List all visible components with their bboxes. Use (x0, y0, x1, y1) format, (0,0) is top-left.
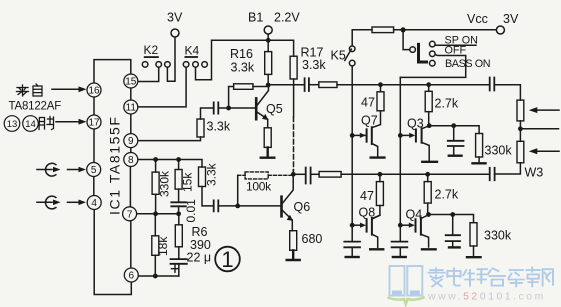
wire top mid line to 330k (429, 126, 479, 134)
node rail-2.7kbot (425, 172, 430, 177)
wire 330kbot stem (473, 246, 475, 257)
svg-text:R16: R16 (230, 47, 253, 61)
svg-text:16: 16 (88, 86, 100, 97)
wire 330kA top lead (155, 160, 157, 173)
pin 4 (87, 196, 101, 210)
wire pin9 to 3.3kA bottom (138, 137, 201, 141)
resistor Vcc rail horizontal (372, 27, 394, 33)
svg-text:15k: 15k (181, 172, 195, 192)
node Q4 gate (398, 223, 403, 228)
svg-text:Q6: Q6 (294, 200, 311, 214)
wire 47bot top lead (379, 174, 381, 181)
svg-text:2.2V: 2.2V (274, 11, 300, 25)
capacitor 22u electrolytic (171, 259, 187, 264)
pin 11 (124, 100, 138, 114)
pin 16 (87, 83, 101, 97)
node Vcc junction (401, 27, 406, 32)
svg-text:K5: K5 (331, 49, 346, 63)
resistor R17 3.3k (290, 56, 297, 79)
svg-text:Vcc: Vcc (467, 12, 488, 26)
wire W3 mid junction right (523, 128, 559, 130)
wire pin7 line (137, 213, 179, 215)
svg-text:5: 5 (91, 165, 97, 176)
svg-text:18k: 18k (156, 236, 170, 256)
svg-text:330k: 330k (158, 170, 172, 197)
wire pin16 loop to pin15 (94, 60, 131, 83)
resistor top rail horizontal (319, 82, 337, 88)
svg-text:3V: 3V (503, 12, 519, 26)
ground Q6 680 (287, 250, 300, 260)
svg-text:47: 47 (361, 96, 375, 110)
svg-text:TA8122AF: TA8122AF (9, 101, 62, 113)
capacitor 400 line bottom (392, 242, 408, 248)
wire 2.7kbot bottom lead (427, 203, 429, 214)
capacitor C2 Q6 coupling (214, 200, 219, 211)
wire K4 contact down to pin11 (138, 67, 186, 107)
wire left bus 17-5 (93, 129, 95, 163)
node rail-2.7ktop (426, 82, 431, 87)
capacitor bottom rail left (306, 168, 311, 184)
wire bottom rail resistor to right cap (341, 173, 489, 175)
watermark book icon (390, 266, 405, 296)
node R16 bottom / Q5 collector (266, 83, 271, 88)
switch mode L bracket (419, 44, 427, 62)
wire bottom mid line to 330k bot (429, 215, 474, 223)
wire B1 terminal lead into R16 (267, 34, 269, 52)
svg-text:1: 1 (221, 247, 233, 272)
wire SP ON contact (435, 44, 476, 46)
wire right bus 15-11 (130, 88, 132, 100)
wire junction to Q6 collector top (292, 170, 294, 174)
node Q4 drain (426, 212, 431, 217)
switch K4 bar (185, 56, 199, 58)
arrow W3 upper (537, 109, 560, 111)
svg-text:3.3k: 3.3k (231, 61, 255, 75)
transistor Q4 FET (416, 215, 429, 247)
left annotation 来自 (drawn strokes) (17, 84, 43, 96)
ground cap4 (449, 154, 462, 156)
ground Q5 emitter resistor (261, 147, 275, 157)
resistor 330k pin8 (152, 172, 159, 194)
wire Q3 gate (400, 134, 410, 136)
wire 3V terminal lead to K2 contact (167, 37, 175, 81)
resistor 3.3k pin9 (197, 119, 204, 137)
ground 330k bottom (467, 256, 481, 258)
svg-text:6: 6 (129, 271, 135, 282)
svg-text:Q8: Q8 (359, 206, 376, 220)
terminal 3V (171, 29, 179, 37)
wire right bus 7-6 (130, 221, 132, 268)
switch K5 top contact (349, 46, 355, 52)
svg-text:OFF: OFF (445, 45, 467, 57)
wire 47bot bottom to Q8 drain (373, 206, 380, 219)
svg-text:BASS ON: BASS ON (445, 58, 490, 70)
resistor 330k bottom (470, 223, 477, 246)
resistor 2.7k bottom (424, 182, 431, 204)
wire left bus 5-4 (93, 177, 95, 196)
wire 15k bottom to cap 0.01 (178, 189, 180, 202)
wire top rail resistor to W3 corner (337, 84, 489, 86)
pin 8 (124, 153, 138, 167)
ground cap5 (449, 246, 460, 248)
annotation 脚 glyph (39, 117, 54, 130)
wire input lower (37, 201, 52, 203)
svg-text:www.520101.com: www.520101.com (427, 291, 546, 303)
switch K2 contact c (165, 62, 171, 68)
svg-text:2.7k: 2.7k (435, 97, 459, 111)
switch mode contact OFF (430, 51, 436, 57)
wire arrow pin17 (56, 121, 80, 123)
svg-text:13: 13 (7, 119, 18, 130)
wire cap4 from junction (453, 126, 455, 141)
svg-text:330k: 330k (484, 229, 512, 243)
resistor W3 lower half (517, 141, 524, 163)
input hook upper (46, 163, 56, 176)
arrow Q4 gate (409, 223, 415, 228)
resistor feedback Q5 (234, 84, 253, 90)
wire pin8 line (138, 160, 202, 168)
pin 15 (124, 74, 138, 88)
ground K5 line cap (346, 256, 359, 258)
wire arrow pin16 (52, 88, 80, 90)
wire input upper (37, 169, 52, 171)
wire 15k top lead (178, 160, 180, 170)
resistor Q5 emitter (264, 128, 271, 148)
ground Q7 source (371, 156, 385, 158)
resistor 3.3k pin8 (199, 167, 206, 187)
svg-text:680: 680 (302, 232, 323, 246)
node Q3 drain (427, 123, 432, 128)
node rail-47top (378, 82, 383, 87)
switch K2 contact a (142, 62, 148, 68)
rotated value labels (156, 162, 219, 256)
svg-text:Q7: Q7 (361, 114, 378, 128)
resistor 680 (290, 231, 297, 251)
wire pin6 line (138, 275, 178, 277)
svg-text:14: 14 (25, 119, 36, 130)
wire top rail right cap to W3 (495, 85, 520, 100)
svg-text:3.3k: 3.3k (207, 120, 231, 134)
resistor R6 390 (175, 225, 182, 247)
node Q7 gate (350, 133, 355, 138)
wire right bus 9-8 (130, 148, 132, 153)
svg-text:3V: 3V (167, 11, 183, 25)
watermark (390, 266, 423, 296)
svg-text:R6: R6 (192, 225, 208, 239)
wire K4 contact to B1 rail and R17 top (196, 40, 294, 79)
node Q3 gate (398, 133, 403, 138)
wire K2 contact to pin15 (138, 67, 159, 82)
wire bottom rail left (293, 173, 305, 175)
switch mode contact BASS (430, 60, 436, 66)
wire top rail segment cap left (268, 84, 303, 86)
svg-text:47: 47 (360, 189, 374, 203)
svg-text:Q5: Q5 (266, 102, 283, 116)
W3 wiper arrows (529, 107, 559, 154)
node pin7-cap (176, 211, 181, 216)
svg-text:17: 17 (88, 118, 100, 129)
arrow Q3 gate (409, 133, 415, 138)
wire Vcc junction down to switch pole (403, 30, 410, 50)
switch mode contact SP (430, 41, 436, 47)
resistor R16 3.3k (265, 52, 272, 75)
wire 100k right lead dashed (268, 174, 293, 176)
wire cap5 stem (452, 242, 454, 248)
svg-text:22 μ: 22 μ (187, 251, 212, 265)
switch K2 contact b (156, 62, 162, 68)
arrow Q7 gate (360, 133, 366, 138)
node B1 junction (266, 38, 271, 43)
node cap4 top (451, 123, 456, 128)
node Q5 base (226, 106, 231, 111)
wire C2 to Q6 base (219, 205, 281, 207)
wire 2.7ktop bottom lead (428, 112, 430, 126)
node rail-47bot (378, 172, 383, 177)
wire cap5 from junction (452, 215, 454, 235)
input terminal hooks and arrows (37, 163, 79, 209)
pin 7 (123, 207, 137, 221)
pin 9 (124, 134, 138, 148)
wire top rail cap to resistor (309, 84, 318, 86)
svg-text:9: 9 (128, 136, 134, 147)
terminal Vcc (496, 26, 504, 34)
capacitor K5 line bottom (344, 242, 360, 248)
ground Q8 source (370, 248, 383, 250)
wire R6 top lead (178, 214, 180, 225)
arrow to pin16 (79, 86, 87, 92)
switch mode pole (410, 47, 416, 53)
wire 330kA bottom lead (155, 194, 157, 214)
svg-text:15: 15 (125, 77, 137, 88)
wire 100k left lead dashed (238, 174, 245, 176)
wire bottom rail cap3 to resistor (312, 173, 320, 175)
wire 400 line cap stem (399, 248, 401, 257)
resistor 2.7k top (425, 91, 432, 111)
wire 2.7ktop top lead (428, 85, 430, 92)
wire feedback resistor right lead (253, 86, 268, 88)
wire 18k top lead (154, 214, 156, 236)
terminal B1 (264, 26, 272, 34)
wire 22u cap to pin6 line (178, 264, 180, 276)
svg-text:100k: 100k (246, 180, 272, 194)
wire 47top top lead (380, 85, 382, 92)
marker circled 1 (215, 247, 240, 272)
wire cap 0.01 to pin7 line (178, 206, 180, 213)
wire K5 vertical line (351, 66, 353, 241)
resistor 330k top (476, 134, 483, 158)
switch K4 contact b (193, 62, 199, 68)
node pin8-15k (176, 157, 181, 162)
wire Q8 gate (352, 224, 362, 226)
capacitor cap5 to ground bottom channel (446, 235, 460, 241)
svg-text:Q4: Q4 (406, 208, 423, 222)
switch K2 bar (144, 56, 159, 58)
wire Vcc rail with K5 drop (352, 30, 372, 46)
svg-text:K2: K2 (144, 43, 159, 57)
watermark Chinese text 家电维修资料网 (approximated strokes) (429, 267, 553, 286)
node cap5 top (450, 212, 455, 217)
wire right bus 11-9 (130, 114, 132, 134)
wire cap4 stem to ground (453, 146, 455, 155)
arrow Q8 gate (360, 223, 366, 228)
switch K5 bottom contact (349, 60, 355, 66)
svg-text:K4: K4 (185, 44, 200, 58)
svg-text:0.01: 0.01 (184, 199, 198, 223)
resistor bottom rail horizontal (319, 172, 341, 178)
wire W3 resistor1 to mid junction (519, 121, 521, 141)
svg-text:8: 8 (128, 155, 134, 166)
transistor Q7 FET (362, 111, 381, 158)
switch K4 contact c (202, 62, 208, 68)
wire left bus 16-17 (93, 97, 95, 115)
wire bottom rail cap to W3 (495, 163, 520, 174)
svg-text:3.3k: 3.3k (205, 162, 219, 186)
capacitor top rail right (490, 78, 495, 91)
ground Q4 source (422, 248, 436, 250)
wire R17 bottom down solid part (293, 79, 295, 117)
ground 330k top (473, 162, 486, 164)
resistor 100k dashed (245, 172, 268, 179)
switch K4 contact a (183, 62, 189, 68)
node Q6 base branch (235, 204, 240, 209)
svg-text:330k: 330k (485, 144, 513, 158)
resistor 47 bottom (376, 182, 383, 206)
capacitor top rail left (305, 78, 309, 91)
capacitor 0.01 (171, 202, 186, 206)
transistor Q5 (256, 85, 268, 128)
wire 18k bottom lead (154, 255, 156, 276)
svg-text:B1: B1 (248, 11, 263, 25)
input hook lower (46, 196, 56, 209)
svg-text:2.7k: 2.7k (435, 188, 459, 202)
left annotation pin13 circled (4, 116, 38, 132)
terminals and switches (142, 26, 504, 67)
transistor Q8 FET (367, 215, 380, 247)
svg-text:7: 7 (127, 209, 133, 220)
wire C1 to Q5 base (219, 107, 255, 109)
svg-text:11: 11 (126, 103, 137, 114)
gate arrows (360, 133, 415, 228)
arrow W3 lower (537, 150, 560, 152)
resistor 18k (152, 236, 159, 256)
node pin7-330k (153, 211, 158, 216)
node pin6-18k (153, 274, 158, 279)
ground 400 line cap (393, 256, 406, 258)
switch K5 arm (345, 49, 352, 60)
node Q8 gate (350, 223, 355, 228)
wire 330ktop stem (478, 157, 480, 163)
capacitor C1 Q5 coupling (214, 102, 219, 113)
wire R17 down dashed part (293, 117, 295, 170)
node W3 wiper (518, 126, 523, 131)
svg-text:W3: W3 (525, 166, 544, 180)
svg-text:IC1 TA8155F: IC1 TA8155F (107, 115, 123, 215)
IC pin circles (87, 74, 139, 282)
transistor Q3 FET (416, 126, 429, 162)
transistor Q6 (282, 174, 294, 230)
wire 3.3kA top to coupling cap C1 (201, 108, 213, 119)
capacitor bottom rail right (490, 168, 495, 180)
arrow to pin17 (79, 119, 87, 125)
22u electrolytic plus sign (172, 265, 179, 272)
wire OFF contact right-down-left to 400 line (400, 54, 465, 77)
resistor W3 upper half (517, 100, 524, 121)
capacitors (171, 78, 495, 264)
node R17 bottom / Q6 collector (291, 172, 296, 177)
wire Q7 gate (352, 134, 362, 136)
wire feedback resistor left lead to Q5 base (229, 87, 234, 108)
node pin8-330k (153, 157, 158, 162)
wire Q4 gate (400, 224, 409, 226)
resistor 47 top (377, 92, 384, 111)
wire right bus 8-7 (129, 167, 131, 207)
wire R6 bottom to 22u cap (178, 247, 180, 259)
ground symbols (261, 147, 486, 260)
wire Vcc resistor to terminal (394, 29, 497, 31)
svg-text:Q3: Q3 (407, 117, 424, 131)
wire branch up to 100k left (237, 175, 239, 206)
resistor 15k (175, 170, 182, 190)
pin 6 (124, 268, 138, 282)
svg-text:4: 4 (91, 198, 97, 209)
capacitor cap4 to ground top channel (448, 141, 464, 146)
ground Q3 source (422, 161, 437, 163)
pin 17 (87, 115, 101, 129)
wire 3.3kB bottom to coupling cap C2 (202, 187, 213, 206)
wire 2.7kbot top lead (427, 174, 429, 181)
pin 5 (87, 163, 101, 177)
wire 400 vertical line (mode line) (399, 77, 401, 241)
wire K5 line cap stem (351, 248, 353, 257)
wire R16 bottom to rail junction (267, 74, 269, 85)
wire left bus pin4 down to bottom loop (94, 210, 131, 295)
svg-text:3.3k: 3.3k (302, 58, 326, 72)
